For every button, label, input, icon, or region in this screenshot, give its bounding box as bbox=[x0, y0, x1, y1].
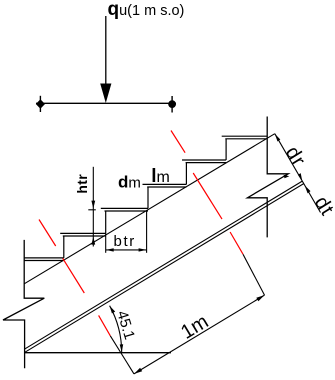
svg-text:lm: lm bbox=[151, 166, 170, 187]
right wall bbox=[247, 117, 288, 238]
red section line 1 segment a bbox=[39, 220, 56, 247]
angle arc 45.1 bbox=[110, 306, 122, 353]
slab soffit upper line bbox=[24, 181, 302, 349]
svg-text:htr: htr bbox=[74, 174, 90, 194]
red section line 1 segment b bbox=[63, 258, 85, 293]
btr extension lines bbox=[106, 212, 147, 253]
tread T4 bbox=[143, 184, 187, 187]
load span line bbox=[36, 102, 176, 104]
nosing line bbox=[24, 134, 275, 284]
htr arrow top bbox=[91, 201, 95, 209]
arc arrow bottom bbox=[120, 344, 124, 352]
left wall bbox=[3, 240, 44, 368]
dr arrow top bbox=[275, 134, 281, 142]
1m dimension line bbox=[134, 295, 265, 374]
red section line 2 segment b bbox=[193, 173, 222, 219]
svg-text:btr: btr bbox=[114, 233, 136, 250]
dt arrow below soffit bbox=[305, 185, 311, 193]
htr arrow bottom bbox=[91, 237, 95, 245]
red section line 1 segment c bbox=[99, 315, 111, 335]
1m arrow right bbox=[256, 295, 264, 301]
riser R5 bbox=[185, 163, 187, 185]
btr dimension line bbox=[106, 249, 147, 251]
htr dimension line bbox=[88, 167, 96, 247]
load arrow bbox=[100, 16, 111, 103]
tread T5 bbox=[182, 160, 226, 163]
tread T2 bbox=[60, 233, 105, 236]
riser R6 bbox=[225, 139, 227, 160]
right support circle bbox=[168, 96, 176, 113]
red section line 2 segment a bbox=[171, 131, 185, 153]
dr/dt dimension line bbox=[275, 134, 321, 213]
arc arrow top bbox=[110, 306, 116, 314]
left support diamond bbox=[36, 96, 45, 112]
riser R2 bbox=[63, 236, 65, 258]
riser R3 bbox=[105, 211, 107, 233]
svg-text:qu(1 m s.o): qu(1 m s.o) bbox=[108, 0, 185, 20]
1m extension line right bbox=[243, 254, 265, 295]
btr arrow left bbox=[106, 248, 114, 251]
slab soffit lower line bbox=[24, 184, 304, 353]
bottom line bbox=[24, 352, 171, 354]
red section line 2 segment c bbox=[230, 232, 243, 254]
svg-text:dm: dm bbox=[118, 172, 141, 191]
tread T1 bbox=[24, 258, 64, 261]
tread T3 bbox=[101, 208, 148, 211]
dr arrow at soffit bbox=[298, 173, 302, 181]
right wall break tick bbox=[284, 175, 290, 178]
riser R4 bbox=[147, 187, 149, 208]
1m arrow left bbox=[134, 368, 142, 374]
tread T6 bbox=[222, 136, 268, 139]
btr arrow right bbox=[139, 248, 147, 251]
1m extension line left bbox=[110, 336, 134, 374]
